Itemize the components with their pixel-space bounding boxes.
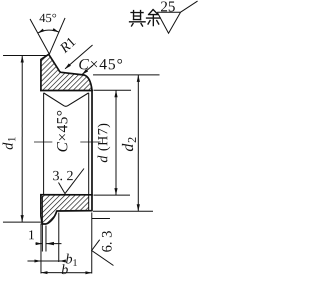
- general roughness check symbol: [157, 1, 197, 33]
- short ext line on right face: [92, 217, 110, 219]
- centerline left segment: [34, 141, 52, 143]
- svg-text:3. 2: 3. 2: [52, 169, 73, 184]
- svg-text:C×45°: C×45°: [54, 110, 71, 153]
- ext line lip right: [45, 225, 47, 251]
- 45deg extension line left: [30, 19, 49, 54]
- bore bottom line: [40, 194, 93, 196]
- chamfer top leader: [82, 65, 93, 74]
- bore right thin edge line: [88, 93, 90, 210]
- d2 bottom extension line: [93, 210, 153, 212]
- lip left thin edge / ext: [41, 196, 43, 252]
- b1 dimension line: [27, 260, 63, 262]
- 45deg arc arrowheads: [38, 29, 45, 34]
- b dimension line: [41, 272, 92, 274]
- ext line left face lower: [40, 223, 42, 273]
- svg-text:6. 3: 6. 3: [99, 231, 115, 253]
- d H7 top extension line: [94, 89, 132, 91]
- d2 dimension line: [137, 75, 139, 211]
- 45deg extension line right: [49, 18, 65, 54]
- d H7 dimension line: [115, 90, 117, 195]
- d1 top extension line: [3, 54, 46, 56]
- ext line fillet end: [58, 212, 60, 262]
- ext line right face lower: [91, 212, 93, 273]
- chamfer cone triangle in bore: [44, 93, 89, 106]
- hatched upper rim section: [41, 54, 92, 90]
- hatched lower rim section: [41, 195, 89, 224]
- svg-text:1: 1: [28, 227, 35, 242]
- d1 bottom extension line: [3, 221, 41, 223]
- d H7 bottom extension line: [93, 194, 129, 196]
- svg-text:C×45°: C×45°: [78, 56, 123, 73]
- part outline upper rim: [41, 54, 92, 90]
- svg-text:25: 25: [160, 0, 175, 15]
- part outline lower rim with lip: [41, 90, 92, 224]
- svg-text:d (H7): d (H7): [96, 123, 111, 163]
- chinese characters qi yu: [130, 10, 161, 27]
- R1 leader: [65, 45, 92, 69]
- dim 1 right stub: [46, 243, 62, 245]
- bore left thin edge line: [43, 93, 45, 195]
- 45deg dimension arc: [38, 30, 59, 33]
- dim 1 left stub: [35, 243, 42, 245]
- svg-text:b: b: [61, 263, 68, 278]
- d2 top extension line: [93, 74, 160, 76]
- 3.2 symbol: [58, 168, 84, 193]
- bore top line: [40, 89, 93, 91]
- svg-text:45°: 45°: [39, 11, 57, 25]
- centerline right segment: [80, 141, 100, 143]
- 6.3 symbol: [92, 240, 114, 266]
- d1 dimension line: [21, 55, 23, 222]
